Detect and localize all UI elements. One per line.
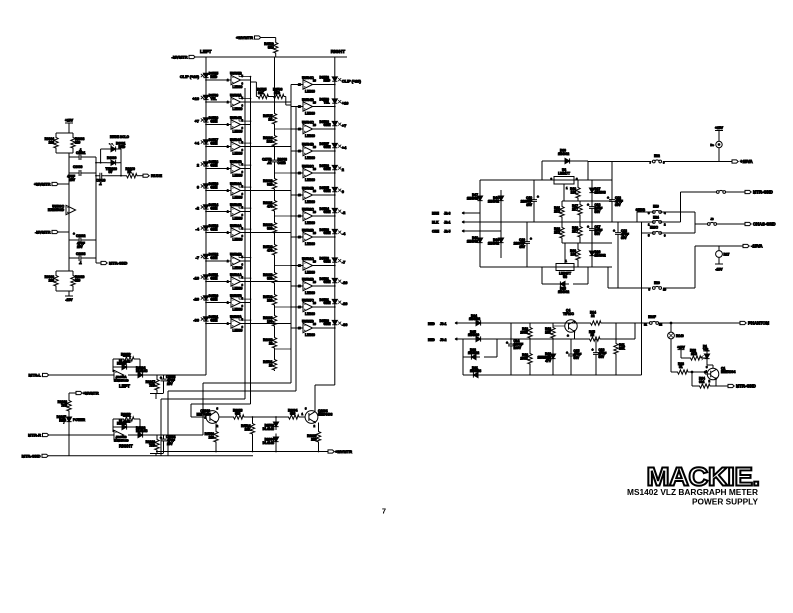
svg-text:YEL: YEL (703, 348, 709, 352)
svg-text:100: 100 (571, 252, 577, 256)
svg-text:LM339: LM339 (305, 333, 315, 337)
svg-text:1N4003: 1N4003 (470, 369, 481, 373)
svg-text:GRN: GRN (210, 206, 218, 210)
svg-text:2K2: 2K2 (554, 230, 560, 234)
svg-text:+: + (567, 334, 569, 338)
svg-text:MTR-R: MTR-R (28, 432, 41, 437)
svg-text:C3602: C3602 (76, 234, 86, 238)
svg-text:1N4002: 1N4002 (595, 253, 606, 257)
svg-text:J3-1: J3-1 (440, 322, 447, 326)
svg-text:GRN: GRN (324, 189, 332, 193)
svg-text:C3603: C3603 (76, 252, 86, 256)
svg-text:35V: 35V (519, 245, 526, 249)
svg-text:16K: 16K (545, 330, 552, 334)
svg-text:LM339: LM339 (305, 89, 315, 93)
svg-text:+: + (587, 203, 589, 207)
svg-text:2K2: 2K2 (554, 209, 560, 213)
svg-text:470: 470 (267, 205, 273, 209)
svg-text:+MVMTR: +MVMTR (83, 391, 99, 395)
svg-text:MTR-GND: MTR-GND (736, 384, 756, 389)
svg-text:1N4002: 1N4002 (467, 239, 478, 243)
svg-text:1N4002: 1N4002 (558, 290, 569, 294)
svg-text:E23F: E23F (648, 315, 656, 319)
svg-text:C3600: C3600 (73, 165, 83, 169)
svg-text:NJM4560D: NJM4560D (114, 378, 129, 382)
svg-text:RIGHT: RIGHT (119, 444, 133, 449)
svg-text:47V: 47V (545, 359, 552, 363)
svg-text:RED: RED (324, 79, 331, 83)
svg-text:RED: RED (428, 338, 435, 342)
svg-text:RED: RED (428, 322, 435, 326)
svg-text:+: + (160, 376, 162, 380)
svg-text:1N4002: 1N4002 (467, 196, 478, 200)
svg-text:+: + (607, 196, 609, 200)
svg-text:2K2: 2K2 (691, 352, 697, 356)
svg-text:330: 330 (267, 227, 273, 231)
svg-text:MTR-GND: MTR-GND (753, 190, 773, 195)
svg-text:7K5: 7K5 (149, 384, 155, 388)
svg-text:1N4002: 1N4002 (558, 152, 569, 156)
svg-text:LM339: LM339 (305, 221, 315, 225)
svg-text:C42B: C42B (278, 161, 287, 165)
svg-text:DL4148: DL4148 (136, 429, 148, 433)
svg-text:GRN: GRN (324, 301, 332, 305)
svg-text:1N4002: 1N4002 (468, 351, 479, 355)
svg-text:LM339: LM339 (305, 270, 315, 274)
svg-text:GRN: GRN (210, 141, 218, 145)
svg-text:E23C: E23C (650, 226, 659, 230)
svg-text:RIGHT: RIGHT (331, 49, 345, 54)
svg-text:130: 130 (571, 190, 577, 194)
svg-text:25V: 25V (167, 382, 174, 386)
svg-text:LM339: LM339 (305, 178, 315, 182)
svg-text:12: 12 (659, 322, 663, 326)
svg-text:1N4002: 1N4002 (469, 317, 480, 321)
svg-text:+: + (613, 229, 615, 233)
svg-text:200K: 200K (520, 356, 528, 360)
svg-text:-7: -7 (342, 260, 345, 265)
svg-text:200K: 200K (520, 330, 528, 334)
svg-text:470: 470 (267, 249, 273, 253)
svg-text:LM317T: LM317T (558, 172, 570, 176)
svg-text:910: 910 (290, 412, 296, 416)
svg-text:J2-5: J2-5 (444, 229, 451, 233)
svg-text:LM339: LM339 (305, 200, 315, 204)
svg-text:22: 22 (591, 314, 595, 318)
svg-text:100K: 100K (123, 414, 131, 418)
svg-text:+15V: +15V (677, 345, 685, 349)
svg-text:DL4148: DL4148 (119, 360, 131, 364)
svg-text:1K: 1K (268, 118, 273, 122)
svg-text:LM339: LM339 (305, 134, 315, 138)
svg-text:GRN: GRN (210, 227, 218, 231)
svg-text:B+: B+ (710, 143, 714, 147)
svg-text:2K7: 2K7 (572, 207, 578, 211)
svg-text:TIP29C: TIP29C (563, 312, 575, 316)
svg-text:.01: .01 (267, 161, 272, 165)
svg-text:+7: +7 (195, 119, 199, 124)
svg-text:11: 11 (644, 322, 647, 326)
svg-text:35V: 35V (615, 203, 622, 207)
svg-text:7K5: 7K5 (149, 444, 155, 448)
svg-text:ORN: ORN (432, 229, 440, 233)
svg-text:GRN: GRN (324, 231, 332, 235)
svg-text:50V: 50V (599, 355, 606, 359)
svg-text:10K: 10K (245, 428, 252, 432)
svg-text:+10: +10 (192, 96, 199, 101)
svg-text:GRN: GRN (210, 276, 218, 280)
svg-text:E19: E19 (653, 205, 659, 209)
svg-text:MTR-GND: MTR-GND (109, 260, 128, 265)
svg-text:GRN: GRN (324, 210, 332, 214)
svg-text:25V: 25V (77, 245, 84, 249)
svg-text:-10: -10 (342, 280, 348, 285)
svg-text:220: 220 (49, 279, 55, 283)
svg-text:2K0: 2K0 (274, 91, 280, 95)
svg-text:DL4148: DL4148 (119, 420, 131, 424)
svg-text:10K: 10K (258, 91, 265, 95)
svg-text:YEL: YEL (210, 97, 216, 101)
svg-text:910: 910 (267, 183, 273, 187)
svg-text:BLK: BLK (432, 220, 439, 224)
svg-text:604: 604 (699, 380, 705, 384)
svg-text:1N4002: 1N4002 (488, 199, 499, 203)
svg-text:50V: 50V (574, 356, 581, 360)
svg-text:-MVMTR: -MVMTR (35, 230, 51, 235)
svg-text:LEFT: LEFT (200, 49, 212, 54)
svg-text:E24: E24 (653, 215, 659, 219)
svg-text:GRN: GRN (324, 123, 332, 127)
svg-text:R27: R27 (724, 252, 730, 256)
svg-text:1N4002: 1N4002 (488, 241, 499, 245)
svg-text:220: 220 (75, 141, 81, 145)
svg-text:BRN: BRN (432, 211, 440, 215)
svg-text:25V: 25V (69, 178, 76, 182)
svg-text:LM339: LM339 (305, 312, 315, 316)
svg-text:50V: 50V (595, 210, 602, 214)
svg-text:-7: -7 (196, 255, 199, 260)
svg-text:-20: -20 (193, 297, 199, 302)
svg-text:100: 100 (267, 320, 273, 324)
svg-text:+MVMTR: +MVMTR (335, 449, 352, 454)
svg-text:220: 220 (49, 141, 55, 145)
svg-text:NJM4560D: NJM4560D (114, 438, 129, 442)
svg-text:+10: +10 (342, 101, 349, 106)
svg-text:MMT3904: MMT3904 (721, 370, 736, 374)
svg-text:POWER: POWER (73, 418, 86, 422)
svg-text:1K3: 1K3 (267, 140, 273, 144)
svg-text:20K: 20K (619, 346, 626, 350)
svg-text:GRN: GRN (210, 185, 218, 189)
svg-text:35V: 35V (526, 203, 533, 207)
svg-text:+: + (587, 225, 589, 229)
svg-text:-15VA: -15VA (751, 244, 763, 249)
svg-text:RUDE: RUDE (151, 173, 162, 178)
svg-text:7: 7 (382, 507, 386, 516)
svg-text:0: 0 (197, 185, 199, 190)
svg-text:-10: -10 (193, 276, 199, 281)
svg-text:+: + (592, 348, 594, 352)
svg-text:25V: 25V (167, 442, 174, 446)
svg-text:DL4148: DL4148 (263, 427, 275, 431)
svg-text:CLIP (+20): CLIP (+20) (180, 74, 200, 79)
svg-text:22: 22 (591, 333, 595, 337)
svg-text:MTR-GND: MTR-GND (22, 453, 41, 458)
svg-text:+: + (537, 195, 539, 199)
svg-text:E22: E22 (654, 154, 660, 158)
svg-text:GRN: GRN (210, 256, 218, 260)
svg-text:E20: E20 (654, 281, 660, 285)
svg-text:RED: RED (59, 418, 66, 422)
svg-text:+15V: +15V (65, 119, 74, 123)
svg-text:220: 220 (75, 279, 81, 283)
svg-text:GRN: GRN (210, 318, 218, 322)
svg-text:0: 0 (342, 189, 344, 194)
svg-text:+7: +7 (342, 123, 346, 128)
svg-text:CHAS-GND: CHAS-GND (753, 222, 776, 227)
svg-text:220: 220 (267, 299, 273, 303)
svg-text:7K5: 7K5 (61, 404, 67, 408)
svg-text:YEL: YEL (324, 101, 330, 105)
svg-text:GRN: GRN (324, 322, 332, 326)
svg-text:J2-3: J2-3 (444, 211, 451, 215)
svg-text:GRN: GRN (210, 119, 218, 123)
svg-text:GRN: GRN (324, 280, 332, 284)
svg-text:-MVMTR: -MVMTR (172, 55, 188, 60)
svg-text:-15V: -15V (715, 268, 723, 272)
svg-text:2K: 2K (128, 170, 133, 174)
svg-text:D3600: D3600 (107, 156, 117, 160)
svg-text:3K9: 3K9 (268, 46, 274, 50)
svg-text:GNDB: GNDB (636, 208, 646, 212)
svg-text:50V: 50V (595, 232, 602, 236)
svg-text:RED: RED (119, 145, 126, 149)
svg-text:2K7: 2K7 (572, 229, 578, 233)
svg-text:J3-2: J3-2 (440, 338, 447, 342)
svg-text:MMT4403: MMT4403 (318, 412, 333, 416)
svg-text:.1: .1 (79, 261, 82, 265)
svg-text:91: 91 (679, 365, 683, 369)
svg-text:+: + (566, 351, 568, 355)
svg-text:+15VA: +15VA (740, 159, 753, 164)
svg-text:PHANTOM: PHANTOM (748, 321, 770, 326)
svg-text:LM339: LM339 (305, 291, 315, 295)
svg-text:CLIP (+20): CLIP (+20) (342, 79, 362, 84)
svg-text:-30: -30 (193, 318, 199, 323)
svg-text:RUDE SOLO: RUDE SOLO (110, 135, 129, 139)
svg-text:GRN: GRN (324, 260, 332, 264)
svg-text:DL4148: DL4148 (136, 369, 148, 373)
svg-text:-20: -20 (342, 301, 348, 306)
svg-text:+MVMTR: +MVMTR (34, 182, 51, 187)
svg-text:+: + (160, 436, 162, 440)
svg-text:RED: RED (210, 75, 217, 79)
svg-text:35V: 35V (621, 236, 628, 240)
svg-text:+: + (73, 232, 75, 236)
svg-text:220: 220 (209, 436, 215, 440)
svg-text:GRN: GRN (210, 163, 218, 167)
svg-text:220: 220 (311, 438, 317, 442)
svg-text:R140: R140 (676, 334, 684, 338)
svg-text:1N4003: 1N4003 (595, 190, 606, 194)
svg-text:1N4000: 1N4000 (468, 333, 479, 337)
svg-text:100K: 100K (123, 354, 131, 358)
svg-text:POWER SUPPLY: POWER SUPPLY (692, 498, 759, 507)
svg-text:+: + (530, 237, 532, 241)
svg-text:.1: .1 (79, 148, 82, 152)
svg-text:GRN: GRN (210, 297, 218, 301)
svg-text:910: 910 (235, 412, 241, 416)
svg-text:MTR-L: MTR-L (29, 372, 42, 377)
svg-text:GRN: GRN (324, 167, 332, 171)
svg-text:MS1402 VLZ BARGRAPH METER: MS1402 VLZ BARGRAPH METER (627, 488, 758, 497)
svg-text:DL4148: DL4148 (263, 441, 275, 445)
svg-text:+MVMTR: +MVMTR (236, 35, 253, 40)
svg-text:LEFT: LEFT (119, 384, 130, 389)
svg-text:LM339: LM339 (305, 156, 315, 160)
svg-text:U3: U3 (563, 275, 567, 279)
svg-text:100V: 100V (514, 346, 522, 350)
svg-text:20: 20 (269, 364, 273, 368)
svg-text:NJM4560D: NJM4560D (48, 208, 65, 212)
svg-text:+: + (506, 341, 508, 345)
svg-text:LM339: LM339 (305, 242, 315, 246)
svg-text:-15V: -15V (65, 298, 73, 302)
svg-text:J6: J6 (710, 217, 714, 221)
svg-text:J2-1: J2-1 (444, 220, 451, 224)
svg-text:LM339: LM339 (305, 111, 315, 115)
svg-text:.1: .1 (99, 182, 102, 186)
svg-text:22: 22 (269, 342, 273, 346)
svg-text:-30: -30 (342, 322, 348, 327)
svg-text:GRN: GRN (324, 145, 332, 149)
svg-text:330: 330 (267, 277, 273, 281)
svg-text:+15V: +15V (715, 126, 724, 130)
